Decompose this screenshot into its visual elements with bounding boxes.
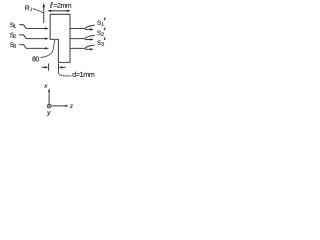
arrow RJ radiation shaft — [43, 7, 45, 23]
waveguide junction body outline — [50, 14, 70, 62]
label S2 prime tick — [104, 28, 106, 31]
arrowhead S1 input — [45, 27, 49, 29]
label d=1mm — [72, 72, 94, 77]
axis z shaft — [52, 105, 67, 107]
label S1 — [10, 23, 16, 28]
axis y origin circle (out of page) — [47, 104, 51, 108]
label S1 prime tick — [104, 18, 106, 21]
label axis y — [47, 111, 51, 116]
wire S3' output line — [70, 45, 95, 48]
label RJ — [25, 6, 32, 11]
arrowhead axis x up — [48, 88, 50, 91]
leader RJ — [33, 8, 43, 12]
arrow S1' output direction shaft — [85, 28, 91, 30]
axis y origin dot — [48, 105, 50, 107]
dimension d extension tick 2 — [58, 64, 60, 71]
label S2' — [97, 31, 103, 36]
arrow S3' output direction shaft — [85, 48, 91, 50]
dimension d right arrow shaft — [62, 66, 66, 68]
label S3 prime tick — [104, 37, 106, 40]
label S3 — [10, 42, 16, 47]
label l=2mm — [50, 2, 71, 8]
arrowhead S2' output — [90, 38, 94, 40]
label axis z — [70, 105, 73, 108]
label axis x — [44, 85, 48, 88]
arrowhead axis z right — [65, 105, 68, 107]
arrowhead S3' output — [90, 48, 94, 50]
arrowhead S2 input — [45, 38, 49, 40]
wire S3 input line — [19, 45, 46, 49]
arrowhead S1' output — [90, 28, 94, 30]
wire S1' output line — [70, 25, 95, 28]
dimension d left arrow shaft — [42, 66, 46, 68]
dimension l=2mm line — [49, 10, 70, 12]
arrow S2' output direction shaft — [85, 39, 91, 41]
arrowhead RJ up — [42, 3, 45, 7]
wire S2' output line — [70, 35, 95, 38]
leader 80 — [40, 40, 55, 58]
label S2 — [10, 33, 16, 38]
arrowhead l=2mm left — [47, 10, 51, 12]
arrowhead S3 input — [45, 47, 49, 49]
arrowhead d left — [45, 66, 49, 68]
label S1' — [97, 21, 103, 26]
label S3' — [97, 40, 103, 45]
dimension d extension tick 1 — [48, 64, 50, 71]
leader d=1mm — [58, 71, 71, 76]
axis x shaft — [48, 91, 50, 104]
wire S2 input line — [19, 35, 46, 39]
arrowhead l=2mm right — [67, 10, 71, 12]
arrowhead d right — [59, 66, 63, 68]
label 80 — [32, 57, 39, 62]
wire S1 input line — [19, 25, 46, 29]
